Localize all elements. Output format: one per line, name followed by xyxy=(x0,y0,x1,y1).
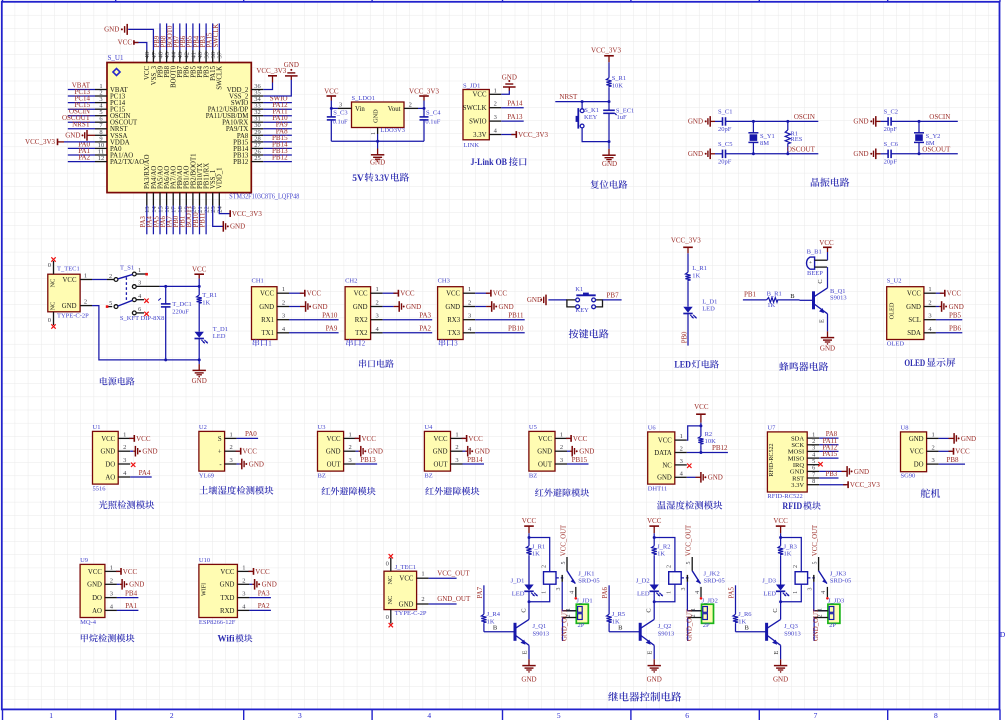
capacitor 20pF top xyxy=(715,109,732,134)
wire DHT11 pin4 GND xyxy=(687,472,723,483)
svg-text:1: 1 xyxy=(421,570,424,577)
svg-text:RFID-RC522: RFID-RC522 xyxy=(769,443,775,476)
svg-text:OLED: OLED xyxy=(889,302,896,319)
svg-text:S_R1: S_R1 xyxy=(612,75,626,82)
svg-text:GND: GND xyxy=(773,675,788,683)
svg-text:VCC: VCC xyxy=(123,568,138,576)
ground (relay 1) xyxy=(521,659,536,683)
svg-text:2: 2 xyxy=(84,299,87,306)
wire buzzer to collector xyxy=(827,267,829,288)
wire pin35 to GND xyxy=(263,80,291,97)
svg-text:SWCLK: SWCLK xyxy=(213,24,220,48)
wire CH3 pin2 GND xyxy=(475,301,514,312)
svg-text:1: 1 xyxy=(494,87,497,94)
svg-text:1: 1 xyxy=(49,711,53,720)
svg-text:STM32F103C8T6_LQFP48: STM32F103C8T6_LQFP48 xyxy=(229,193,300,200)
svg-text:2: 2 xyxy=(680,446,683,453)
resistor J_R1 1K xyxy=(526,544,545,558)
power flag VCC_3V3 (LDO out) xyxy=(409,87,439,108)
svg-text:3.3V: 3.3V xyxy=(375,174,390,184)
svg-text:2P: 2P xyxy=(703,622,710,629)
power flag VCC (relay 3) xyxy=(773,517,788,534)
svg-text:PA3: PA3 xyxy=(419,312,431,320)
title reset circuit xyxy=(590,180,627,189)
svg-text:KEY: KEY xyxy=(576,307,590,314)
svg-text:D: D xyxy=(1000,630,1005,639)
svg-text:RX2: RX2 xyxy=(355,317,368,324)
wire U7 pin3 PA12 xyxy=(819,445,838,452)
svg-text:1: 1 xyxy=(268,341,271,348)
svg-text:RFID: RFID xyxy=(782,502,802,512)
no-connect X (J_TEC1 top) xyxy=(389,554,393,558)
wire contact3 to connector (relay 3) xyxy=(814,582,828,611)
title IR obstacle module 3 xyxy=(535,488,589,497)
svg-text:2: 2 xyxy=(362,341,366,348)
connector U2 YL69 xyxy=(199,424,237,479)
wire U3 pin1 VCC xyxy=(355,435,377,443)
svg-text:PB11: PB11 xyxy=(199,213,206,228)
svg-text:ESP8266-12F: ESP8266-12F xyxy=(199,619,236,626)
svg-text:PA2/TX/AO: PA2/TX/AO xyxy=(110,159,144,166)
svg-text:S_C6: S_C6 xyxy=(884,141,899,148)
svg-text:4: 4 xyxy=(570,591,576,594)
svg-text:VCC: VCC xyxy=(538,436,552,443)
capacitor 20pF bottom xyxy=(881,141,899,166)
svg-text:CH2: CH2 xyxy=(345,278,357,285)
title RFID module xyxy=(782,501,820,512)
svg-text:5: 5 xyxy=(686,561,692,564)
svg-text:VCC_3V3: VCC_3V3 xyxy=(850,481,880,489)
wire U9 pin4 PA1 xyxy=(117,602,138,610)
crystal S_Y2 8M xyxy=(914,121,940,153)
wire CH2 pin3 PA3 xyxy=(383,312,433,320)
wire CH1 pin3 PA10 xyxy=(289,312,339,320)
net label OSCIN xyxy=(929,113,950,121)
svg-text:VCC: VCC xyxy=(88,569,102,576)
svg-text:1K: 1K xyxy=(692,272,700,279)
svg-text:OSCOUT: OSCOUT xyxy=(787,145,816,153)
svg-text:2: 2 xyxy=(170,711,174,720)
svg-text:6: 6 xyxy=(685,711,689,720)
svg-text:DO: DO xyxy=(105,461,115,468)
ground (crystal top 165.6) xyxy=(853,116,880,127)
svg-text:BEEP: BEEP xyxy=(807,270,823,277)
svg-text:SCL: SCL xyxy=(908,317,920,324)
svg-text:3: 3 xyxy=(110,591,113,598)
wire GND to key xyxy=(548,299,567,301)
svg-text:VCC: VCC xyxy=(910,449,924,456)
wire B_R1 to base xyxy=(779,293,800,300)
wire CH2 pin4 PA2 xyxy=(383,325,433,333)
net labels PA3 PA4 PA5 PA6 PA7 PB0 PB1 BOOT1 PB10 PB11 (MCU bottom) xyxy=(140,206,206,235)
svg-text:GND: GND xyxy=(65,132,80,140)
svg-text:S: S xyxy=(218,436,222,443)
svg-text:BZ: BZ xyxy=(529,472,537,479)
svg-text:PB7: PB7 xyxy=(607,291,620,299)
transistor J_Q3 S9013 xyxy=(767,608,801,654)
svg-text:E: E xyxy=(773,650,780,654)
connector CH3 serial xyxy=(438,278,476,348)
svg-text:U5: U5 xyxy=(529,424,537,431)
title IR obstacle module 1 xyxy=(322,487,376,496)
svg-text:RFID-RC522: RFID-RC522 xyxy=(767,493,802,500)
svg-text:GND: GND xyxy=(284,61,299,69)
no-connect U1 pin3 xyxy=(131,463,135,467)
svg-text:3: 3 xyxy=(282,313,285,320)
wire U5 pin1 VCC xyxy=(566,435,588,443)
svg-text:C: C xyxy=(520,608,527,612)
title servo xyxy=(921,489,940,498)
wire U10 pin2 GND xyxy=(249,579,276,590)
svg-text:2: 2 xyxy=(409,101,412,108)
wire TEC1 pin2 to bottom rail xyxy=(92,306,201,362)
capacitor 20pF top xyxy=(881,109,898,134)
svg-text:J_D1: J_D1 xyxy=(511,577,525,584)
relay switch J_JK2 SRD-05 xyxy=(681,557,725,600)
wire CH1 pin2 GND xyxy=(289,301,328,312)
wire U1 pin2 GND xyxy=(130,446,157,457)
wire L_R1 to LED xyxy=(687,282,689,307)
svg-text:OUT: OUT xyxy=(327,461,342,468)
wire VCC_3V3 to R1 xyxy=(608,62,610,78)
svg-text:T_DC1: T_DC1 xyxy=(172,301,192,308)
wire contact3 to connector (relay 1) xyxy=(562,582,576,611)
svg-text:3: 3 xyxy=(931,457,934,464)
wire CH3 pin1 VCC xyxy=(475,290,507,298)
svg-text:2: 2 xyxy=(242,577,245,584)
svg-text:T_TEC1: T_TEC1 xyxy=(57,266,80,273)
svg-text:PB13: PB13 xyxy=(360,456,376,464)
wire VCC to R1 xyxy=(198,279,200,295)
wire base (relay 2) xyxy=(609,625,640,632)
wire pin36 to VCC_3V3 xyxy=(263,83,272,90)
svg-text:E: E xyxy=(647,650,654,654)
svg-text:OUT: OUT xyxy=(538,461,553,468)
svg-text:AO: AO xyxy=(92,608,102,615)
svg-text:S9013: S9013 xyxy=(830,295,847,302)
svg-text:GND: GND xyxy=(688,150,703,158)
svg-text:2: 2 xyxy=(282,300,285,307)
svg-text:J_Q3: J_Q3 xyxy=(784,623,798,630)
svg-text:2: 2 xyxy=(348,444,351,451)
wire U2 pin3 GND xyxy=(237,459,264,470)
svg-text:3: 3 xyxy=(229,457,232,464)
wire emitter to GND (buzzer) xyxy=(827,314,829,332)
ground (relay 2) xyxy=(647,659,662,683)
power flag VCC (DHT11) xyxy=(694,403,709,423)
wire U5 pin2 GND xyxy=(567,446,594,457)
svg-text:VCC: VCC xyxy=(434,436,448,443)
connector J_JD3 2P xyxy=(814,598,844,629)
wire U9 pin1 VCC xyxy=(116,568,138,576)
wire emitter to GND (relay 3) xyxy=(780,645,782,659)
svg-text:VCC: VCC xyxy=(907,291,921,298)
svg-text:J_R2: J_R2 xyxy=(657,544,670,551)
wire PB1 to B_R1 xyxy=(743,290,767,300)
wire U1 pin1 VCC xyxy=(129,435,151,443)
svg-text:NC: NC xyxy=(662,462,672,469)
svg-text:YL69: YL69 xyxy=(199,472,214,479)
svg-text:GND: GND xyxy=(142,448,157,456)
svg-text:0.1uF: 0.1uF xyxy=(333,119,348,126)
capacitor T_DC1 220uF xyxy=(158,286,192,360)
svg-text:1: 1 xyxy=(84,272,87,279)
svg-text:VCC: VCC xyxy=(324,87,339,95)
connector J_JD2 2P xyxy=(688,598,718,629)
svg-text:S_U2: S_U2 xyxy=(887,278,902,285)
svg-text:PA3: PA3 xyxy=(258,589,270,597)
svg-text:VCC: VCC xyxy=(192,266,207,274)
svg-text:0.1uF: 0.1uF xyxy=(425,119,440,126)
svg-text:TXD: TXD xyxy=(220,595,234,602)
svg-text:1: 1 xyxy=(348,431,351,438)
svg-text:T_S1: T_S1 xyxy=(120,264,134,271)
svg-text:VCC: VCC xyxy=(220,569,234,576)
power flag VCC (buzzer) xyxy=(819,239,834,260)
buzzer B_B1 BEEP xyxy=(807,248,828,277)
svg-text:OLED: OLED xyxy=(887,341,905,348)
svg-text:TX2: TX2 xyxy=(355,330,368,337)
transistor B_Q1 S9013 xyxy=(800,279,847,323)
svg-text:OSCOUT: OSCOUT xyxy=(922,145,951,153)
title wifi module xyxy=(218,634,253,644)
ground (MCU pin35 VSS_2) xyxy=(284,61,299,80)
svg-text:1K: 1K xyxy=(532,551,540,558)
title relay control circuit xyxy=(608,692,681,702)
svg-text:GND: GND xyxy=(499,303,514,311)
svg-text:GND: GND xyxy=(906,304,921,311)
svg-text:3.3V: 3.3V xyxy=(473,132,486,139)
svg-text:TYPE-C-2P: TYPE-C-2P xyxy=(395,610,427,617)
wire OSCOUT rail xyxy=(726,152,819,155)
svg-text:1uF: 1uF xyxy=(617,114,628,121)
svg-text:0: 0 xyxy=(386,614,389,621)
wire J_TEC1 pin1 VCC_OUT xyxy=(429,569,471,578)
svg-text:2: 2 xyxy=(229,444,232,451)
svg-text:DO: DO xyxy=(92,595,102,602)
svg-text:GND: GND xyxy=(708,474,723,482)
svg-text:3: 3 xyxy=(348,457,351,464)
ground (MCU pin23 VSS_1) xyxy=(223,221,245,232)
svg-text:PA15: PA15 xyxy=(822,451,837,458)
svg-text:GND: GND xyxy=(262,581,277,589)
svg-text:GND: GND xyxy=(62,303,77,310)
svg-text:GND_OUT: GND_OUT xyxy=(437,595,471,603)
svg-text:2: 2 xyxy=(541,565,547,568)
svg-text:PB3: PB3 xyxy=(825,471,837,478)
svg-text:20pF: 20pF xyxy=(718,126,732,133)
svg-text:GND: GND xyxy=(537,449,552,456)
title methane sensor xyxy=(81,634,135,643)
wire JD1 pin2 PA14 xyxy=(501,100,523,108)
svg-text:J_R5: J_R5 xyxy=(612,611,625,618)
relay switch J_JK1 SRD-05 xyxy=(556,557,600,600)
svg-text:2P: 2P xyxy=(578,622,585,629)
svg-text:U9: U9 xyxy=(80,557,88,564)
svg-text:J_D2: J_D2 xyxy=(636,577,650,584)
svg-text:E: E xyxy=(521,650,528,654)
ground (relay 3) xyxy=(773,659,788,683)
wire rail to GND (reset) xyxy=(608,142,610,149)
svg-text:B_B1: B_B1 xyxy=(807,248,822,255)
stub pole5 (nc dot) xyxy=(106,305,112,308)
title buzzer circuit xyxy=(779,362,828,371)
svg-text:B: B xyxy=(493,625,498,632)
svg-text:GND: GND xyxy=(192,377,207,385)
net label VCC_OUT (relay 2) xyxy=(686,524,693,556)
svg-text:J_JK1: J_JK1 xyxy=(578,570,594,577)
svg-text:VCC: VCC xyxy=(473,92,487,99)
svg-text:T_R1: T_R1 xyxy=(202,292,217,299)
svg-text:2: 2 xyxy=(494,101,497,108)
regulator U LDO1 LDO3V3 xyxy=(338,95,418,135)
ground (LDO) xyxy=(370,149,385,167)
resistor J_R3 1K xyxy=(778,544,797,558)
svg-text:3: 3 xyxy=(454,341,458,348)
svg-text:GND: GND xyxy=(259,304,274,311)
svg-text:OUT: OUT xyxy=(434,461,449,468)
svg-text:LDO3V3: LDO3V3 xyxy=(380,127,405,134)
power flag VCC (power circuit) xyxy=(192,266,207,279)
svg-text:PB0: PB0 xyxy=(681,331,688,343)
svg-text:PB8: PB8 xyxy=(946,456,959,464)
wire U2 pin1 PA0 xyxy=(237,430,259,438)
svg-text:PA2: PA2 xyxy=(258,602,270,610)
svg-text:VCC: VCC xyxy=(362,435,377,443)
wire VCC node (relay 2) xyxy=(653,533,675,571)
svg-text:VCC_3V3: VCC_3V3 xyxy=(256,67,286,75)
svg-text:1: 1 xyxy=(282,286,285,293)
power flag VCC_3V3 (MCU pin9 VDDA) xyxy=(25,138,95,146)
resistor J_R5 1K xyxy=(607,611,626,632)
wire OLED pin3 PB5 xyxy=(936,312,962,320)
ground (JD1 pin1) xyxy=(502,74,517,91)
resistor S_R1 10K xyxy=(606,75,626,89)
wire OSCIN rail xyxy=(726,120,819,123)
wire U4 pin2 GND xyxy=(463,446,490,457)
connector S_U2 OLED xyxy=(887,278,936,348)
svg-text:5: 5 xyxy=(561,561,567,564)
svg-text:4: 4 xyxy=(138,293,141,300)
svg-text:VCC: VCC xyxy=(399,576,413,583)
svg-text:2: 2 xyxy=(110,577,113,584)
svg-text:GND_OUT: GND_OUT xyxy=(813,608,820,641)
svg-text:3: 3 xyxy=(681,587,687,590)
svg-text:LED: LED xyxy=(674,361,691,371)
wire DATA PB12 xyxy=(687,444,728,453)
svg-text:PB15: PB15 xyxy=(572,456,588,464)
svg-text:0: 0 xyxy=(48,262,51,269)
svg-text:J_JK3: J_JK3 xyxy=(830,570,846,577)
svg-text:GND: GND xyxy=(220,582,235,589)
svg-text:SDA: SDA xyxy=(907,330,921,337)
ground (MCU pin47 VSS_3) xyxy=(104,24,127,35)
svg-text:LED: LED xyxy=(763,591,776,598)
svg-text:VCC: VCC xyxy=(400,290,415,298)
svg-text:3: 3 xyxy=(556,587,562,590)
wire U8 pin1 GND xyxy=(939,433,976,444)
ground (power circuit) xyxy=(192,364,207,385)
svg-text:SRD-05: SRD-05 xyxy=(830,577,851,584)
svg-text:12: 12 xyxy=(98,155,105,162)
svg-text:3.3V: 3.3V xyxy=(791,482,804,489)
svg-text:GND: GND xyxy=(368,448,383,456)
no-connect DHT11 pin3 xyxy=(687,464,691,468)
wire contact3 to connector (relay 2) xyxy=(687,582,701,611)
svg-text:NC: NC xyxy=(49,302,56,311)
svg-text:VCC: VCC xyxy=(573,435,588,443)
wire CH2 pin2 GND xyxy=(383,301,422,312)
key K1 KEY xyxy=(567,286,603,314)
svg-text:DHT11: DHT11 xyxy=(648,485,668,492)
svg-text:AO: AO xyxy=(105,474,115,481)
title DHT11 module xyxy=(657,501,722,510)
wire emitter to GND (relay 2) xyxy=(653,645,655,659)
svg-text:VCC_3V3: VCC_3V3 xyxy=(232,210,262,218)
svg-text:VCC_3V3: VCC_3V3 xyxy=(518,131,548,139)
svg-text:PA10: PA10 xyxy=(322,312,338,320)
svg-text:R2: R2 xyxy=(705,431,713,438)
wire U8 pin3 PB8 xyxy=(939,456,965,464)
ground (buzzer) xyxy=(820,331,835,352)
svg-text:1: 1 xyxy=(468,286,471,293)
svg-text:PA2: PA2 xyxy=(419,325,431,333)
svg-text:C: C xyxy=(817,279,824,283)
svg-text:LED: LED xyxy=(512,591,525,598)
capacitor 20pF bottom xyxy=(715,141,732,166)
svg-text:20pF: 20pF xyxy=(884,126,898,133)
wire GND top to pin 47 xyxy=(128,29,153,50)
svg-text:PB1: PB1 xyxy=(744,290,757,298)
svg-text:OSCIN: OSCIN xyxy=(794,113,815,121)
svg-text:B: B xyxy=(745,625,750,632)
wire JD1 pin4 VCC_3V3 xyxy=(501,131,548,139)
wire LDO ground rail xyxy=(331,134,424,149)
wire U7 pin1 PA8 xyxy=(819,431,838,438)
svg-text:2P: 2P xyxy=(829,622,836,629)
svg-text:VCC: VCC xyxy=(647,517,662,525)
svg-text:GND: GND xyxy=(602,160,617,168)
svg-text:1: 1 xyxy=(123,431,126,438)
svg-text:S_C4: S_C4 xyxy=(426,110,441,117)
svg-text:DATA: DATA xyxy=(654,450,672,457)
svg-text:GND: GND xyxy=(433,449,448,456)
net label OSCOUT xyxy=(787,145,816,153)
power flag VCC (relay 1) xyxy=(522,517,537,534)
svg-text:NC: NC xyxy=(387,596,394,605)
wire CH3 pin4 PB10 xyxy=(475,325,525,333)
title light sensor xyxy=(99,500,155,509)
wire U2 pin2 VCC xyxy=(236,448,258,456)
ground (crystal bottom 0) xyxy=(688,149,715,160)
wire base (relay 3) xyxy=(736,625,767,632)
wire pin23 to GND xyxy=(213,206,223,227)
svg-text:CH1: CH1 xyxy=(252,278,264,285)
svg-text:PB6: PB6 xyxy=(949,325,962,333)
svg-text:PA5: PA5 xyxy=(729,586,736,598)
resistor R1 RES xyxy=(785,120,803,155)
wire U7 RST PB3 xyxy=(819,471,838,478)
svg-text:10K: 10K xyxy=(612,82,624,89)
title serial circuit xyxy=(359,359,394,367)
svg-text:L_R1: L_R1 xyxy=(692,265,707,272)
svg-text:2: 2 xyxy=(109,273,112,280)
wire VCC_3V3 to L_R1 xyxy=(687,253,689,272)
svg-text:S_U1: S_U1 xyxy=(108,54,124,62)
wire key to bottom rail xyxy=(582,128,610,143)
wire Vout to C4 and VCC_3V3 xyxy=(418,107,426,110)
svg-text:J_R6: J_R6 xyxy=(738,611,752,618)
